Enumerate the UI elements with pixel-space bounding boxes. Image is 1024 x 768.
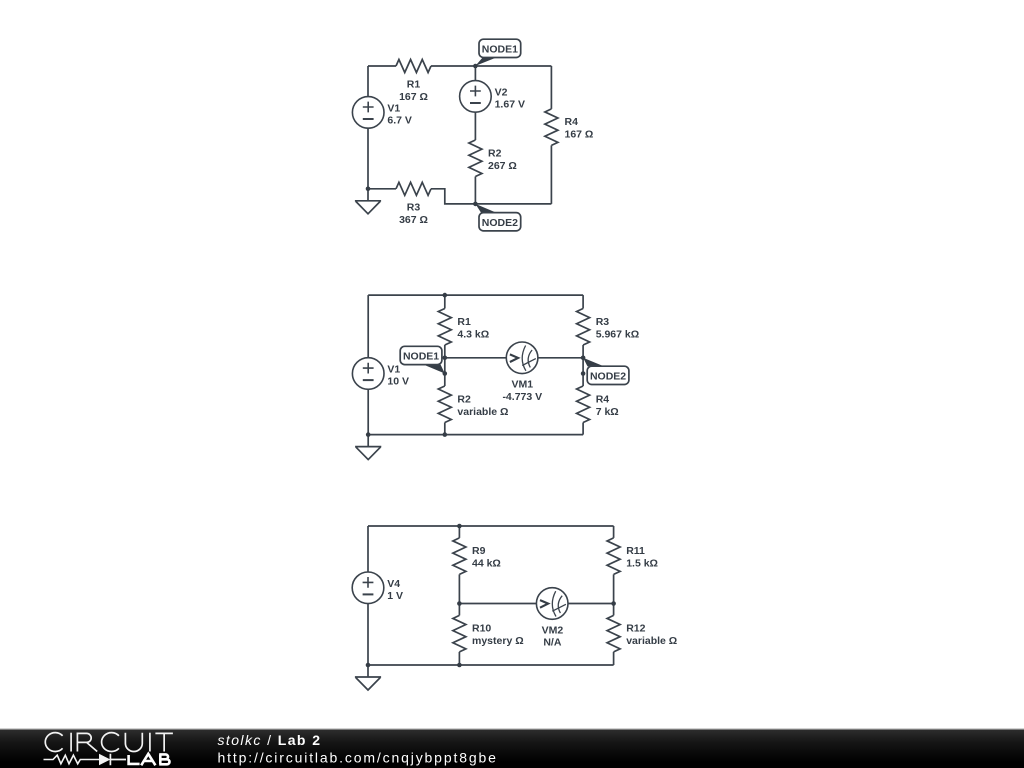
- junction: [457, 524, 462, 529]
- wire: [444, 345, 446, 386]
- svg-text:VM2: VM2: [542, 624, 564, 636]
- wire: [613, 652, 615, 665]
- svg-text:R2: R2: [457, 393, 471, 405]
- junction: [366, 432, 371, 437]
- wire: [444, 295, 446, 308]
- svg-text:R3: R3: [407, 201, 421, 213]
- svg-text:5.967 kΩ: 5.967 kΩ: [596, 328, 639, 340]
- svg-text:V1: V1: [387, 102, 400, 114]
- svg-text:R10: R10: [472, 623, 491, 635]
- svg-text:R11: R11: [626, 545, 645, 557]
- junction: [457, 601, 462, 606]
- wire: [444, 423, 446, 435]
- wire: [431, 65, 551, 67]
- svg-text:267 Ω: 267 Ω: [488, 160, 517, 172]
- svg-text:R12: R12: [626, 623, 645, 635]
- node NODE1 flag: [400, 346, 445, 373]
- svg-text:6.7 V: 6.7 V: [387, 114, 412, 126]
- node NODE2 flag: [583, 358, 629, 385]
- svg-text:1.5 kΩ: 1.5 kΩ: [626, 558, 658, 570]
- svg-text:1.67 V: 1.67 V: [495, 98, 525, 110]
- junction: [581, 356, 586, 361]
- resistor R1 (circuit 2): [438, 309, 489, 346]
- svg-text:VM1: VM1: [512, 379, 534, 391]
- wire: [459, 603, 536, 605]
- svg-text:167 Ω: 167 Ω: [399, 91, 428, 103]
- svg-text:R1: R1: [457, 316, 471, 328]
- svg-text:V4: V4: [387, 578, 400, 590]
- resistor R3: [396, 182, 431, 226]
- wire: [445, 357, 507, 359]
- wire: [582, 423, 584, 435]
- junction: [366, 187, 371, 192]
- wire: [613, 526, 615, 538]
- wire: [367, 295, 369, 358]
- svg-text:1 V: 1 V: [387, 590, 403, 602]
- wire: [367, 604, 369, 665]
- wire: [367, 389, 369, 434]
- wire: [368, 434, 583, 436]
- svg-text:variable Ω: variable Ω: [626, 635, 677, 647]
- svg-text:V2: V2: [495, 86, 508, 98]
- svg-text:R3: R3: [596, 316, 610, 328]
- wire: [582, 345, 584, 386]
- wire: [458, 526, 460, 538]
- circuit 1: [352, 39, 593, 231]
- wire: [538, 357, 583, 359]
- svg-text:7 kΩ: 7 kΩ: [596, 406, 619, 418]
- wire: [368, 294, 583, 296]
- svg-text:NODE1: NODE1: [403, 351, 439, 363]
- wire: [368, 65, 396, 67]
- wire: [368, 664, 614, 666]
- voltage source V1 (circuit 2): [352, 358, 409, 390]
- node NODE2 flag: [475, 204, 520, 231]
- footer bar: [0, 729, 1024, 768]
- resistor R1: [396, 60, 431, 104]
- ground: [355, 189, 381, 214]
- svg-text:-4.773 V: -4.773 V: [502, 391, 542, 403]
- svg-text:4.3 kΩ: 4.3 kΩ: [457, 328, 489, 340]
- voltmeter VM2: [536, 588, 568, 649]
- junction: [611, 601, 616, 606]
- svg-text:NODE1: NODE1: [482, 43, 518, 55]
- junction: [366, 663, 371, 668]
- svg-text:10 V: 10 V: [387, 376, 409, 388]
- resistor R11: [607, 538, 658, 575]
- wire: [458, 652, 460, 665]
- wire: [367, 128, 369, 189]
- voltage source V2: [460, 81, 525, 113]
- junction: [473, 202, 478, 207]
- voltage source V4: [352, 572, 403, 604]
- svg-text:R4: R4: [596, 393, 610, 405]
- wire: [368, 525, 614, 527]
- wire: [368, 188, 396, 190]
- ground: [355, 435, 381, 460]
- resistor R10: [453, 615, 524, 652]
- svg-text:44 kΩ: 44 kΩ: [472, 558, 501, 570]
- svg-text:R9: R9: [472, 545, 486, 557]
- CircuitLab logo: [44, 733, 173, 766]
- wire: [367, 66, 369, 97]
- circuit 3: [352, 524, 677, 690]
- wire: [550, 145, 552, 204]
- resistor R4: [545, 109, 593, 145]
- resistor R2: [469, 140, 517, 177]
- circuit 2: [352, 293, 639, 460]
- resistor R3 (circuit 2): [577, 309, 640, 346]
- node NODE2 attach point: [581, 371, 586, 376]
- voltage source V1: [352, 97, 412, 129]
- wire: [475, 203, 551, 205]
- svg-text:R2: R2: [488, 147, 502, 159]
- resistor R9: [453, 538, 501, 575]
- wire: [568, 603, 614, 605]
- wire: [550, 66, 552, 109]
- junction: [443, 293, 448, 298]
- resistor R12: [607, 615, 677, 652]
- wire: [474, 112, 476, 140]
- svg-text:NODE2: NODE2: [482, 217, 518, 229]
- wire: [458, 574, 460, 615]
- svg-text:stolkc / Lab 2: stolkc / Lab 2: [218, 732, 321, 748]
- svg-text:variable Ω: variable Ω: [457, 406, 508, 418]
- junction: [473, 64, 478, 69]
- wire: [474, 177, 476, 204]
- svg-text:167 Ω: 167 Ω: [565, 129, 594, 141]
- node NODE1 flag: [475, 39, 520, 66]
- resistor R2 (circuit 2): [438, 386, 508, 423]
- ground: [355, 665, 381, 690]
- svg-text:R1: R1: [407, 79, 421, 91]
- svg-text:NODE2: NODE2: [590, 370, 626, 382]
- node NODE1 attach point: [443, 371, 448, 376]
- voltmeter VM1: [502, 342, 542, 403]
- svg-text:mystery Ω: mystery Ω: [472, 635, 524, 647]
- wire: [431, 189, 475, 204]
- junction: [457, 663, 462, 668]
- svg-text:R4: R4: [565, 116, 579, 128]
- wire: [367, 526, 369, 572]
- svg-text:http://circuitlab.com/cnqjybpp: http://circuitlab.com/cnqjybppt8gbe: [218, 750, 497, 766]
- junction: [443, 432, 448, 437]
- svg-text:N/A: N/A: [543, 637, 562, 649]
- wire: [613, 574, 615, 615]
- resistor R4 (circuit 2): [577, 386, 619, 423]
- svg-text:367 Ω: 367 Ω: [399, 214, 428, 226]
- wire: [582, 295, 584, 308]
- junction: [443, 356, 448, 361]
- svg-text:V1: V1: [387, 364, 400, 376]
- wire: [474, 66, 476, 81]
